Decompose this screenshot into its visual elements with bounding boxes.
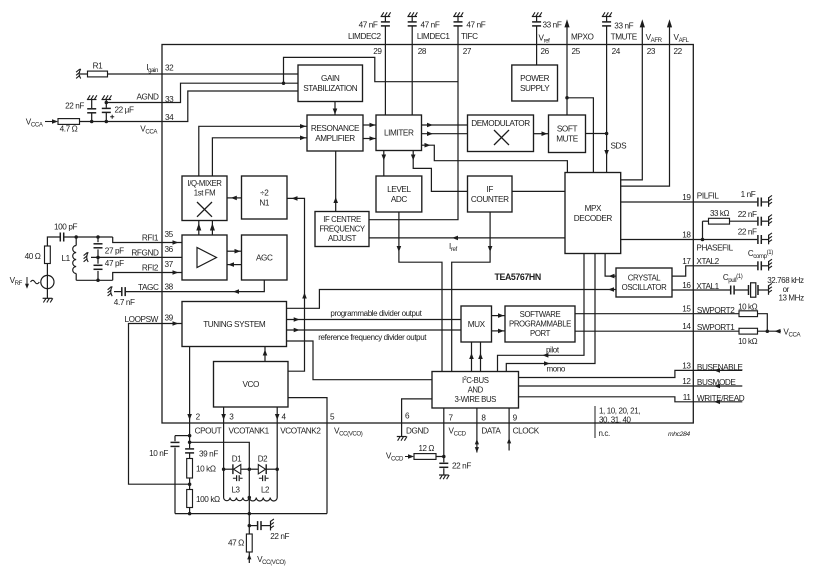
svg-text:47 nF: 47 nF: [466, 21, 485, 30]
crystal 32768: [749, 283, 759, 297]
label nc pins 1: [599, 407, 640, 416]
svg-text:10 kΩ: 10 kΩ: [738, 302, 758, 311]
capacitor 33 nF pin 24: [602, 17, 611, 45]
svg-text:ADJUST: ADJUST: [328, 234, 357, 243]
svg-text:35: 35: [165, 230, 174, 239]
label nc: [599, 429, 610, 438]
wire pin26 to POWER SUPPLY: [536, 45, 538, 66]
wire VCO to pin4: [275, 407, 280, 423]
svg-text:VCOTANK2: VCOTANK2: [280, 427, 321, 436]
capacitor 100pF: [60, 233, 63, 242]
svg-text:MPX: MPX: [585, 204, 602, 213]
wire pin25 to SOFT MUTE: [566, 45, 568, 116]
resistor 47ohm: [246, 526, 252, 552]
diode D2: [249, 464, 277, 474]
block RESONANCE AMPLIFIER: [307, 115, 363, 151]
mixer X symbol: [197, 202, 212, 217]
pin number 17: [682, 257, 691, 266]
wire LEVEL ADC down to I2C: [397, 212, 442, 372]
wire pin2 ext: [189, 423, 191, 448]
wire AGC to amp: [227, 262, 242, 267]
wire I2C to pin9 CLOCK: [507, 408, 511, 451]
svg-text:÷2: ÷2: [260, 188, 269, 197]
svg-text:DATA: DATA: [481, 427, 501, 436]
ground RFGND: [84, 252, 89, 262]
resistor 33k: [709, 218, 730, 224]
wire IF CENTRE to RESONANCE: [333, 151, 338, 212]
block CRYSTAL OSCILLATOR: [616, 268, 672, 297]
capacitor 47pF: [94, 257, 103, 280]
wire top node to RFI1: [113, 237, 162, 243]
block divider N1: [242, 176, 288, 219]
wire circle to 40ohm: [46, 264, 48, 276]
pin label VCOTANK1: [229, 427, 270, 436]
svg-text:11: 11: [683, 393, 692, 402]
label 22nF upper right: [738, 210, 757, 219]
junction dot 22uF bottom: [105, 120, 109, 124]
ground VRF: [43, 298, 53, 302]
wire node to VCCA right: [758, 329, 782, 334]
svg-text:47 nF: 47 nF: [359, 21, 378, 30]
wire pin28 to LIMITER: [411, 45, 413, 116]
svg-text:LEVEL: LEVEL: [387, 185, 411, 194]
label 47ohm: [228, 539, 244, 548]
pin number 18: [682, 231, 691, 240]
label 22nF VCCD: [452, 462, 471, 471]
wire varicap feed: [190, 442, 250, 469]
wire PORT to pin15 SWPORT2: [575, 313, 693, 315]
pin number 4: [282, 413, 287, 422]
ground TAGC: [108, 286, 113, 296]
svg-text:TEA5767HN: TEA5767HN: [495, 272, 541, 282]
junction dot varicap center: [248, 467, 252, 471]
varicap mark D2: [259, 475, 269, 481]
capacitor 22nF lower right: [758, 235, 769, 244]
wire bottom rail: [175, 513, 327, 515]
wire MPX to pin19 PILFIL: [621, 201, 694, 203]
block DEMODULATOR: [468, 115, 534, 152]
block I2C-BUS AND 3-WIRE BUS: [432, 372, 519, 409]
wire SOFT MUTE to SDS: [586, 133, 607, 135]
wire pin 23 up: [640, 19, 645, 44]
label VCC(VCO) bottom: [257, 555, 286, 566]
label L3: [231, 486, 240, 495]
wire LOOPSW to TUNING: [162, 321, 182, 326]
ground above pin 26: [532, 12, 542, 16]
pin number 28: [418, 47, 427, 56]
pin label VCC(VCO): [334, 427, 363, 438]
polarity plus 22uF: [110, 115, 114, 119]
wire I2C to pin13 BUSENABLE: [519, 370, 694, 377]
capacitor Ccomp: [758, 261, 769, 270]
label 33k: [710, 209, 730, 218]
svg-text:39: 39: [165, 314, 174, 323]
wire MPX to pin18 PHASEFIL: [621, 239, 694, 241]
svg-text:n.c.: n.c.: [599, 429, 610, 438]
pin number 33: [165, 95, 174, 104]
wire pin33 AGND: [162, 83, 298, 102]
label D2: [258, 455, 268, 464]
arrow VCCA in: [45, 119, 58, 124]
pin label LIMDEC2: [348, 32, 382, 41]
label R1: [93, 62, 104, 71]
wire SWPORT2 to node: [758, 314, 768, 332]
ground crystal: [769, 283, 772, 294]
svg-text:TAGC: TAGC: [138, 283, 159, 292]
svg-text:17: 17: [682, 257, 691, 266]
wire MPX to CRYSTAL OSC: [605, 254, 616, 279]
label 22nF VCO: [270, 532, 289, 541]
wire pin32 Igain: [108, 73, 299, 75]
svg-text:mono: mono: [547, 365, 566, 374]
junction dot D1 cathode: [222, 467, 226, 471]
svg-text:D2: D2: [258, 455, 268, 464]
svg-text:PORT: PORT: [530, 329, 551, 338]
pin label SWPORT2: [697, 306, 735, 315]
svg-text:POWER: POWER: [520, 74, 549, 83]
pin number 26: [541, 47, 550, 56]
capacitor 22nF VCCD: [439, 457, 448, 476]
diode D1: [224, 464, 250, 474]
junction dot coil center: [248, 496, 252, 500]
inductor L3: [224, 498, 250, 501]
label or: [783, 285, 790, 294]
wire VCO to pin3: [221, 407, 226, 423]
wire 100k to rail: [189, 508, 191, 514]
wire Iref: [369, 236, 565, 241]
wire TUNING to pin2 CPOUT: [187, 347, 192, 424]
wire mixer out1 to RESONANCE: [199, 124, 307, 176]
wire amp to mixer 2: [210, 221, 215, 236]
svg-text:L2: L2: [261, 486, 270, 495]
svg-text:CRYSTAL: CRYSTAL: [628, 273, 662, 282]
junction dot 22nF bottom: [90, 120, 94, 124]
pin label PHASEFIL: [696, 244, 733, 253]
pin number 27: [463, 47, 472, 56]
svg-text:PROGRAMMABLE: PROGRAMMABLE: [509, 320, 571, 329]
label 10k upper: [738, 302, 758, 311]
wire 10k to 100k: [189, 478, 191, 490]
capacitor 22nF: [87, 100, 96, 122]
svg-text:18: 18: [682, 231, 691, 240]
block MPX DECODER: [565, 173, 621, 254]
svg-text:AGND: AGND: [136, 93, 159, 102]
svg-text:pilot: pilot: [546, 345, 560, 354]
svg-text:4.7 nF: 4.7 nF: [114, 298, 135, 307]
pin label TIFC: [461, 32, 478, 41]
wire RESONANCE to LIMITER 1: [363, 123, 376, 128]
svg-text:TIFC: TIFC: [461, 32, 478, 41]
svg-text:LIMDEC2: LIMDEC2: [348, 32, 382, 41]
svg-text:32.768 kHz: 32.768 kHz: [767, 276, 804, 285]
label 13MHz: [779, 294, 805, 303]
svg-text:COUNTER: COUNTER: [471, 195, 509, 204]
wire pin 22 up: [667, 19, 672, 44]
label SDS: [611, 142, 628, 151]
svg-text:XTAL2: XTAL2: [696, 257, 719, 266]
label TEA5767HN: [495, 272, 541, 282]
sine symbol: [31, 280, 40, 283]
svg-text:RFGND: RFGND: [131, 248, 159, 257]
wire Cpull to crystal: [735, 289, 748, 291]
wire TUNING ref divider out: [287, 328, 462, 333]
svg-text:100 kΩ: 100 kΩ: [196, 495, 220, 504]
wire mono: [506, 254, 595, 372]
svg-text:PILFIL: PILFIL: [697, 192, 720, 201]
label Cpull: [723, 273, 743, 284]
pin number 3: [229, 413, 234, 422]
wire MUX to PORT 2: [492, 329, 506, 334]
nc pins line: [594, 406, 596, 438]
svg-text:47 Ω: 47 Ω: [228, 539, 244, 548]
capacitor 22nF upper right: [758, 217, 769, 226]
pin label TAGC: [138, 283, 159, 292]
wire pin34 VCCA: [162, 91, 298, 122]
capacitor 33 nF pin 26: [532, 17, 541, 45]
wire 100pF to node: [64, 236, 113, 238]
label 10k lower: [738, 337, 758, 346]
svg-text:33 kΩ: 33 kΩ: [710, 209, 730, 218]
wire AGC to TAGC pin38: [162, 280, 264, 294]
svg-text:27 pF: 27 pF: [105, 247, 124, 256]
label 33nF pin24: [614, 22, 633, 31]
svg-text:MPXO: MPXO: [571, 33, 594, 42]
label 100kohm: [196, 495, 220, 504]
wire pin24 TMUTE SDS: [604, 45, 609, 173]
pin label SWPORT1: [697, 323, 735, 332]
pin number 39: [165, 314, 174, 323]
svg-text:AMPLIFIER: AMPLIFIER: [315, 134, 355, 143]
svg-text:mhc284: mhc284: [668, 431, 690, 438]
svg-text:25: 25: [572, 47, 581, 56]
svg-text:1st FM: 1st FM: [194, 189, 215, 198]
label L1: [61, 254, 70, 263]
svg-text:DECODER: DECODER: [574, 214, 613, 223]
wire 33k branch: [703, 221, 709, 239]
block GAIN STABILIZATION: [298, 65, 363, 102]
svg-text:14: 14: [682, 322, 691, 331]
svg-text:TMUTE: TMUTE: [611, 33, 638, 42]
svg-text:40 Ω: 40 Ω: [25, 252, 41, 261]
svg-text:22 nF: 22 nF: [738, 228, 757, 237]
pin label BUSMODE: [697, 378, 737, 387]
label Ccomp: [748, 249, 773, 260]
svg-text:22 nF: 22 nF: [270, 532, 289, 541]
label 32768kHz: [767, 276, 804, 285]
pin number 14: [682, 322, 691, 331]
svg-text:16: 16: [682, 281, 691, 290]
label L2: [261, 486, 270, 495]
pin number 36: [165, 245, 174, 254]
pin label VCCA inside: [140, 125, 158, 136]
pin label VAFL: [674, 33, 690, 44]
svg-text:CLOCK: CLOCK: [513, 427, 540, 436]
block IF CENTRE FREQUENCY ADJUST: [315, 212, 369, 247]
svg-text:IF CENTRE: IF CENTRE: [323, 215, 361, 224]
pin label Igain: [146, 63, 158, 74]
label 10kohm: [196, 465, 216, 474]
svg-text:VCO: VCO: [242, 380, 259, 389]
pin number 12: [682, 377, 691, 386]
resistor 10k lower: [739, 328, 758, 334]
svg-text:SUPPLY: SUPPLY: [520, 84, 550, 93]
pin number 25: [572, 47, 581, 56]
block LEVEL ADC: [376, 176, 422, 212]
wire I2C to MUX 1: [469, 342, 474, 372]
label 4.7nF: [114, 298, 135, 307]
wire OSC to pin17 XTAL2: [672, 266, 693, 276]
svg-text:AND: AND: [468, 385, 484, 394]
svg-text:3-WIRE BUS: 3-WIRE BUS: [455, 395, 497, 404]
wire OSC to pin16 XTAL1: [672, 289, 693, 291]
capacitor Cpull: [731, 286, 734, 295]
arrow VCCD in: [405, 454, 414, 459]
pin number 6: [405, 412, 410, 421]
ground above 22nF: [87, 95, 97, 99]
label 10nF: [149, 449, 168, 458]
label 1nF: [741, 190, 756, 199]
wire 47ohm to VCC: [247, 552, 251, 563]
junction dot 22nF node: [248, 524, 252, 528]
pin label VAFR: [646, 33, 663, 44]
pin number 19: [682, 193, 691, 202]
wire WRITE/READ ext: [693, 400, 742, 405]
svg-text:28: 28: [418, 47, 427, 56]
junction dot 22uF top: [105, 101, 109, 105]
pin number 23: [647, 47, 656, 56]
svg-text:24: 24: [612, 47, 621, 56]
pin number 32: [165, 64, 174, 73]
block I/Q-MIXER: [182, 176, 227, 221]
pin label RFI2: [142, 263, 159, 272]
svg-text:33 nF: 33 nF: [614, 22, 633, 31]
svg-text:30, 31, 40: 30, 31, 40: [599, 416, 632, 425]
wire XTAL2 ext: [693, 265, 757, 267]
svg-text:22 µF: 22 µF: [115, 106, 134, 115]
wire I2C to pin8 DATA: [475, 408, 479, 453]
pin number 34: [165, 113, 174, 122]
block LIMITER: [376, 115, 422, 151]
wire LIMITER to DEMODULATOR 1: [422, 123, 468, 128]
ground 22nF lower right: [769, 233, 772, 244]
wire BUSENABLE ext: [693, 368, 742, 373]
svg-text:12: 12: [682, 377, 691, 386]
wire amp to mixer 1: [196, 221, 201, 236]
pin number 2: [196, 413, 201, 422]
block TUNING SYSTEM: [182, 302, 287, 347]
svg-text:27: 27: [463, 47, 472, 56]
junction dot 10nF branch: [188, 434, 192, 438]
junction dot VCCD node: [442, 455, 446, 459]
pin number 35: [165, 230, 174, 239]
inductor L1: [73, 237, 77, 280]
pin number 5: [330, 413, 335, 422]
pin label XTAL2: [696, 257, 719, 266]
svg-text:L1: L1: [61, 254, 70, 263]
pin label RFGND: [131, 248, 159, 257]
svg-text:100 pF: 100 pF: [54, 223, 77, 232]
label 33nF pin26: [543, 21, 562, 30]
junction dot 47pF bottom: [96, 279, 100, 283]
svg-text:13: 13: [682, 361, 691, 370]
svg-text:32: 32: [165, 64, 174, 73]
wire IF COUNTER down to I2C: [452, 212, 493, 372]
wire GAIN to RESONANCE: [333, 102, 338, 116]
svg-text:19: 19: [682, 193, 691, 202]
svg-text:29: 29: [373, 47, 382, 56]
svg-text:4.7 Ω: 4.7 Ω: [60, 125, 78, 134]
svg-text:SOFTWARE: SOFTWARE: [520, 310, 561, 319]
label VCCA right: [783, 328, 801, 339]
block SOFT MUTE: [549, 115, 586, 153]
wire LOOPSW loop: [129, 324, 190, 485]
junction dot varicap branch: [188, 441, 192, 445]
junction dot SWPORT node: [766, 329, 770, 333]
svg-text:MUTE: MUTE: [556, 135, 579, 144]
svg-text:10 kΩ: 10 kΩ: [738, 337, 758, 346]
label 27pF: [105, 247, 124, 256]
pin number 11: [683, 393, 692, 402]
svg-text:38: 38: [165, 283, 174, 292]
resistor 100kohm: [187, 490, 193, 508]
wire VCO to pin5: [288, 398, 327, 423]
RF amplifier triangle: [197, 248, 217, 268]
svg-text:programmable divider output: programmable divider output: [330, 309, 422, 318]
resistor 10k upper: [739, 311, 758, 317]
wire pin27 TIFC vertical: [369, 45, 458, 220]
junction dot AGND branch: [282, 81, 286, 85]
svg-text:SDS: SDS: [611, 142, 628, 151]
label 100pF: [54, 223, 77, 232]
svg-text:PHASEFIL: PHASEFIL: [696, 244, 733, 253]
block SOFTWARE PROGRAMMABLE PORT: [505, 306, 575, 342]
pin label XTAL1: [696, 282, 719, 291]
wire TUNING to I2C: [287, 341, 433, 380]
wire XTAL1 ext: [693, 289, 730, 291]
svg-text:10 kΩ: 10 kΩ: [196, 465, 216, 474]
block IF COUNTER: [468, 176, 513, 212]
wire AGND-TIFC branch: [284, 57, 459, 83]
wire TUNING prog divider out: [287, 317, 462, 322]
wire 33k to 22nF: [730, 220, 758, 222]
label 47nF pin27: [466, 21, 485, 30]
pin label Vref: [539, 34, 551, 45]
label 22nF: [65, 102, 84, 111]
svg-text:47 pF: 47 pF: [105, 259, 124, 268]
pin label TMUTE: [611, 33, 638, 42]
ground PILFIL: [769, 195, 772, 206]
wire TUNING to CRYSTAL OSC: [287, 287, 617, 308]
pin label DGND: [406, 427, 429, 436]
wire I2C to pin7 VCCD: [443, 408, 445, 457]
svg-text:N1: N1: [259, 198, 270, 207]
wire BUSMODE ext: [693, 384, 742, 389]
pin label CLOCK: [513, 427, 540, 436]
svg-text:reference frequency divider ou: reference frequency divider output: [318, 333, 427, 342]
wire 40ohm to 100pF: [47, 237, 60, 246]
svg-text:33 nF: 33 nF: [543, 21, 562, 30]
svg-text:DGND: DGND: [406, 427, 429, 436]
capacitor 22nF VCO: [249, 521, 270, 530]
svg-text:CPOUT: CPOUT: [195, 427, 222, 436]
capacitor 47 nF pin 28: [408, 17, 417, 45]
svg-text:23: 23: [647, 47, 656, 56]
pin number 16: [682, 281, 691, 290]
svg-text:22: 22: [674, 47, 683, 56]
wire divider to MIXER: [227, 196, 242, 201]
label 12ohm: [419, 444, 435, 453]
svg-text:LOOPSW: LOOPSW: [124, 315, 158, 324]
